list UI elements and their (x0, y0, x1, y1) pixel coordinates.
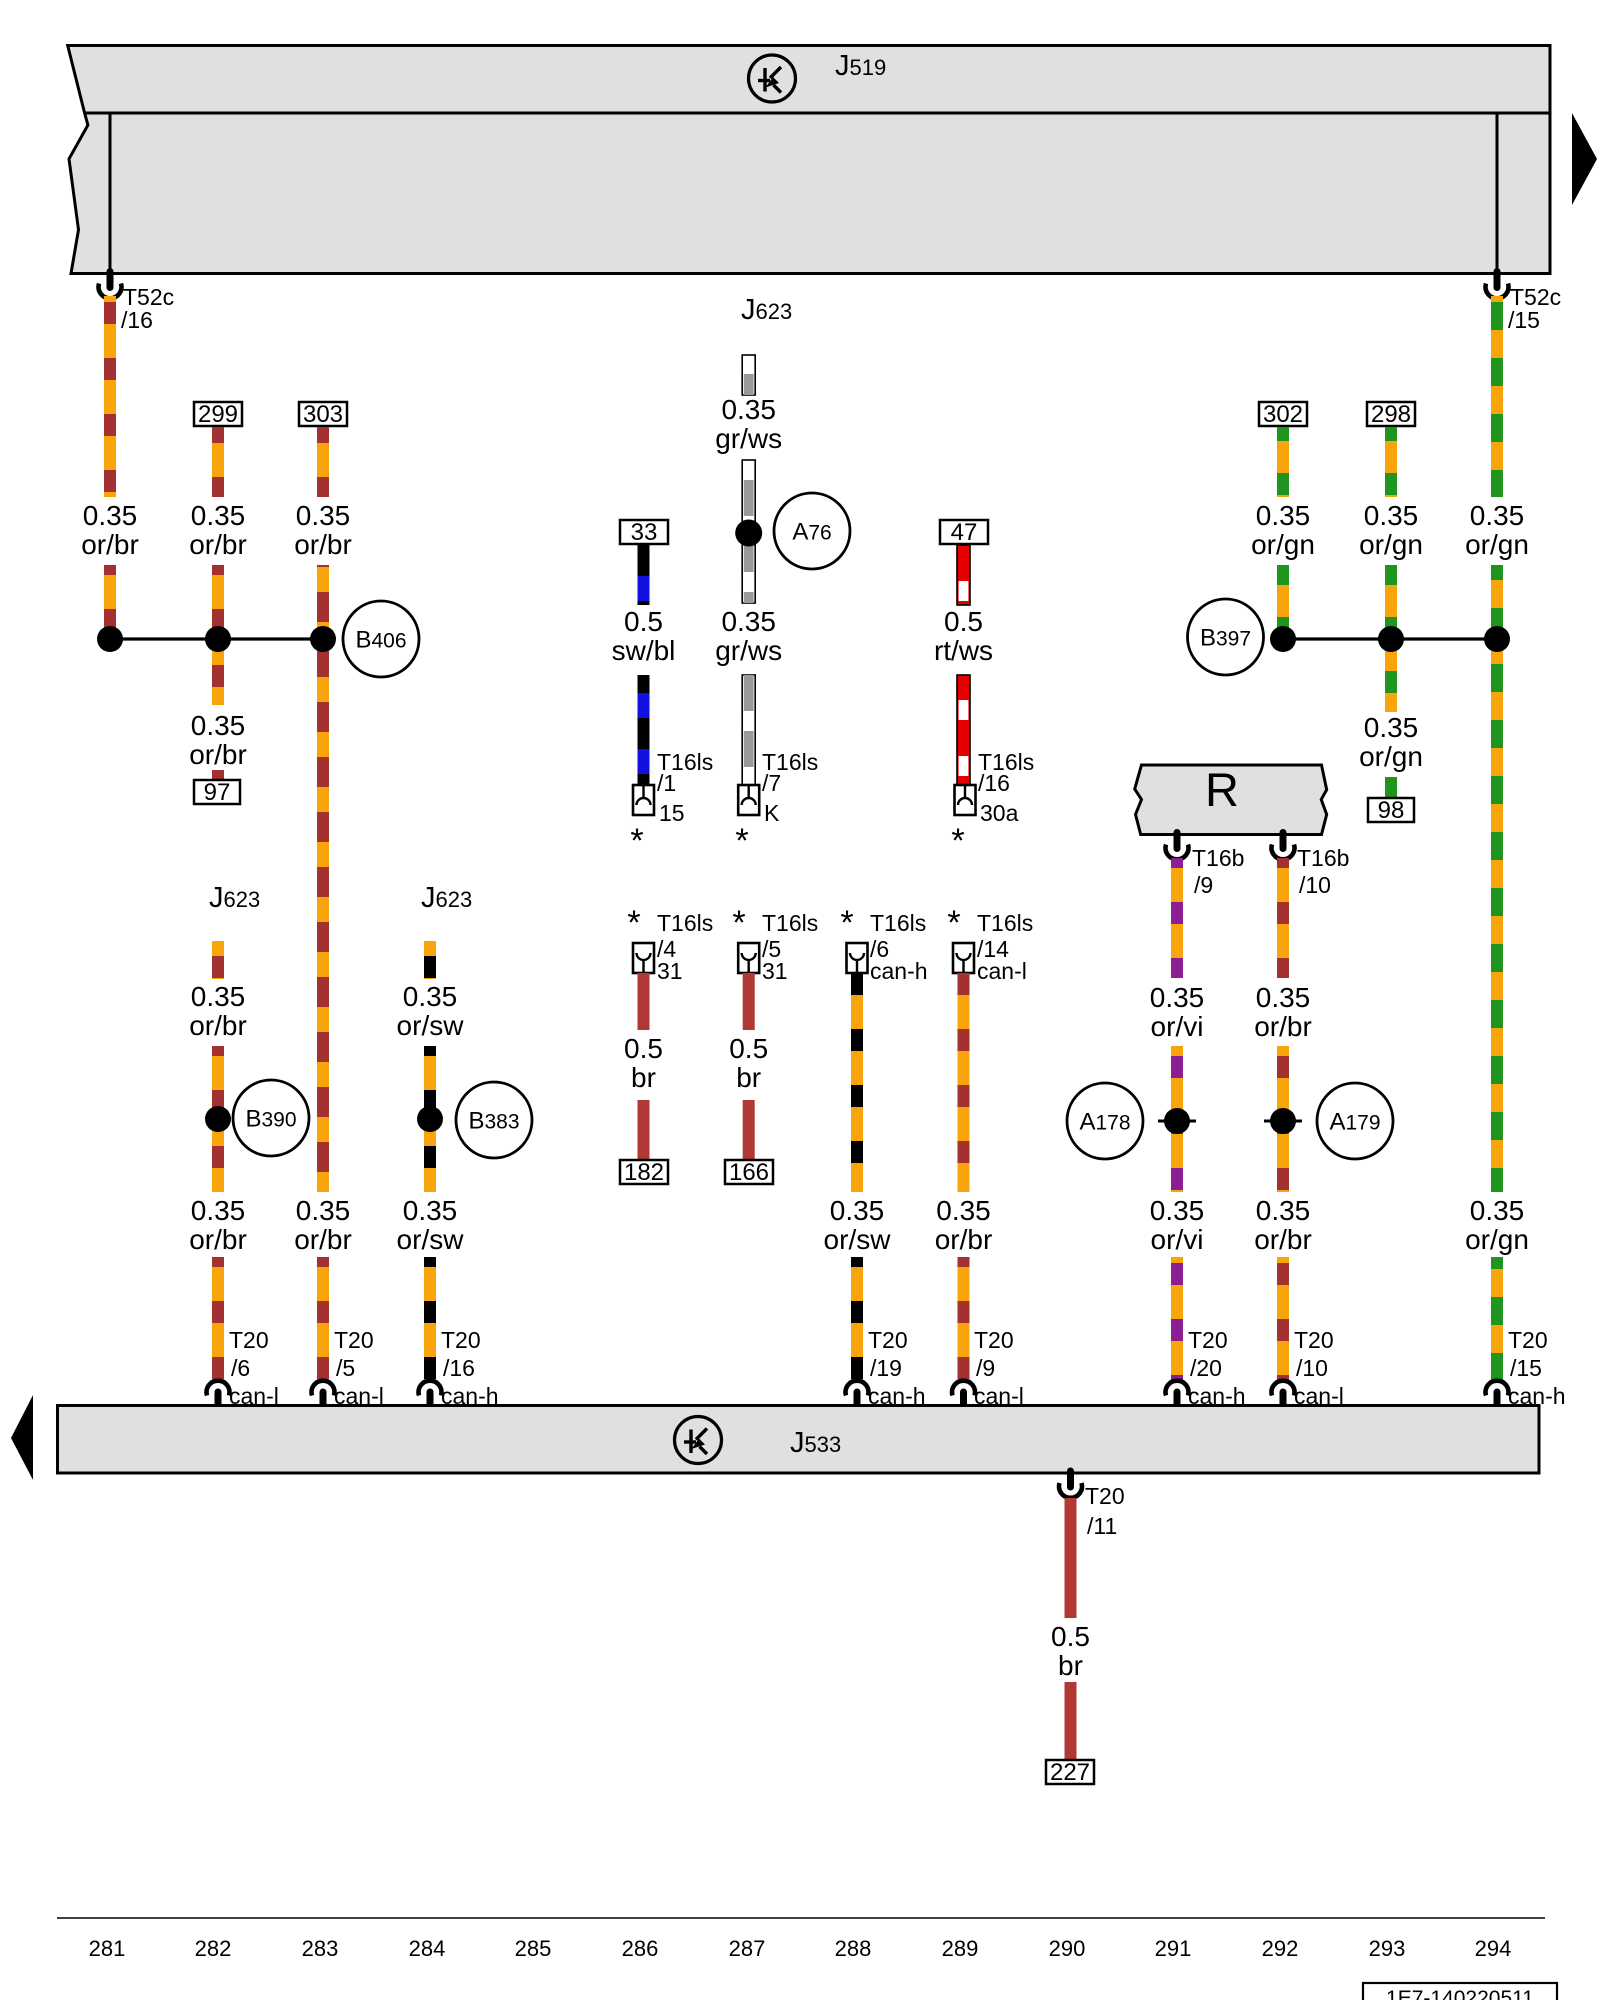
svg-text:286: 286 (622, 1936, 659, 1961)
svg-text:284: 284 (409, 1936, 446, 1961)
svg-text:/16: /16 (443, 1355, 475, 1381)
wire 0.35 or/sw t284 mid (424, 1046, 436, 1192)
svg-text:can-l: can-l (229, 1383, 279, 1409)
label 15 (659, 800, 685, 826)
wire 0.35 or/br track 281 lower (104, 565, 116, 640)
svg-text:T16ls: T16ls (870, 910, 926, 936)
wire 0.35 or/sw t284 to J533 (424, 1257, 436, 1381)
connector T16ls/6 (847, 943, 868, 973)
wire 0.5 sw/bl lower (638, 675, 650, 785)
svg-text:can-h: can-h (1188, 1383, 1246, 1409)
svg-text:0.35: 0.35 (1470, 1195, 1525, 1226)
label T20 t283 (334, 1327, 374, 1353)
svg-text:T20: T20 (1294, 1327, 1334, 1353)
wire 0.35 or/br below T16b/10 (1277, 858, 1289, 978)
asterisk above T16ls/14 (947, 904, 960, 942)
svg-text:A179: A179 (1329, 1109, 1380, 1136)
label T16ls /16 (978, 749, 1034, 775)
wire 0.35 or/br t292 to J533 (1277, 1257, 1289, 1381)
svg-text:291: 291 (1155, 1936, 1192, 1961)
svg-text:*: * (735, 822, 748, 860)
svg-text:166: 166 (729, 1159, 769, 1186)
splice junction A179 dot (1264, 1108, 1302, 1134)
wire 0.35 or/br below box 303 (317, 427, 329, 497)
label /16 t284 (443, 1355, 475, 1381)
svg-text:can-l: can-l (974, 1383, 1024, 1409)
terminal box 299 (194, 401, 242, 428)
connector T20/11 at J533 bottom (1059, 1471, 1082, 1498)
label 0.5 rt/ws (934, 606, 993, 666)
svg-text:can-h: can-h (868, 1383, 926, 1409)
wire 0.35 or/gn track 294 upper (1491, 296, 1503, 497)
wire 0.35 or/sw t288 to J533 (851, 1257, 863, 1381)
svg-text:B390: B390 (245, 1106, 296, 1133)
svg-text:K: K (764, 800, 780, 826)
svg-text:/1: /1 (657, 770, 676, 796)
connector T16ls/5 (738, 943, 759, 973)
label can-h t288b (868, 1383, 926, 1409)
label 0.35 or/br track 282 mid (189, 710, 247, 770)
wire 0.35 gr/ws mid (742, 460, 755, 603)
svg-text:T16b: T16b (1297, 845, 1349, 871)
splice A179 (1317, 1083, 1393, 1159)
label T16ls /4 (657, 910, 713, 936)
track number 284 (409, 1936, 446, 1961)
connector T20/20 at J533 (1166, 1381, 1189, 1406)
label 0.35 or/gn t292 (1251, 500, 1315, 560)
svg-text:285: 285 (515, 1936, 552, 1961)
label J623 track 282 (209, 882, 260, 914)
track number 288 (835, 1936, 872, 1961)
wire 0.35 or/sw t288 (851, 973, 863, 1192)
label 0.5 sw/bl (612, 606, 676, 666)
junction dot track 282 (205, 626, 231, 652)
svg-text:15: 15 (659, 800, 685, 826)
label can-l t282 (229, 1383, 279, 1409)
svg-text:98: 98 (1378, 797, 1405, 824)
wire 0.5 br above box 182 (638, 1100, 650, 1160)
label T16ls /6 (870, 910, 926, 936)
connector T16ls/16 (955, 785, 976, 815)
connector T20/15 at J533 (1486, 1381, 1509, 1406)
svg-text:0.35: 0.35 (83, 500, 138, 531)
drawing number plate 1E7-140220511 (1363, 1983, 1557, 2000)
wire 0.35 or/br track 282 mid (212, 565, 224, 705)
wire 0.35 or/br t289 (958, 973, 970, 1192)
terminal box 182 (620, 1159, 668, 1186)
svg-text:0.35: 0.35 (1256, 500, 1311, 531)
label T16ls /7 (762, 749, 818, 775)
svg-text:303: 303 (303, 401, 343, 428)
label J519 (835, 50, 886, 82)
terminal box 47 (940, 519, 988, 546)
splice junction B390 dot (205, 1106, 231, 1132)
terminal box 98 (1368, 797, 1414, 824)
junction dot track 294 (1484, 626, 1510, 652)
svg-text:0.5: 0.5 (624, 606, 663, 637)
splice B390 (233, 1080, 309, 1156)
track number 291 (1155, 1936, 1192, 1961)
svg-text:294: 294 (1475, 1936, 1512, 1961)
svg-text:gr/ws: gr/ws (715, 635, 782, 666)
label /4 (657, 936, 676, 962)
wire 0.35 or/gn stub above box 98 (1385, 777, 1397, 798)
svg-text:0.35: 0.35 (403, 1195, 458, 1226)
svg-text:0.35: 0.35 (1470, 500, 1525, 531)
svg-text:0.35: 0.35 (721, 606, 776, 637)
asterisk below T16ls/16 (951, 822, 964, 860)
terminal box 97 (194, 779, 240, 806)
track number 286 (622, 1936, 659, 1961)
label J533 (790, 1427, 841, 1459)
continuation arrow right of J519 (1572, 113, 1597, 205)
svg-text:B406: B406 (355, 627, 406, 654)
wire 0.35 or/vi to J533 (1171, 1257, 1183, 1381)
svg-text:0.35: 0.35 (296, 500, 351, 531)
svg-text:J623: J623 (209, 882, 260, 914)
svg-text:or/br: or/br (189, 739, 247, 770)
svg-text:or/gn: or/gn (1251, 529, 1315, 560)
label can-h t291 (1188, 1383, 1246, 1409)
svg-text:or/br: or/br (294, 529, 352, 560)
asterisk below T16ls/1 (630, 822, 643, 860)
label T20 t294 (1508, 1327, 1548, 1353)
svg-text:281: 281 (89, 1936, 126, 1961)
label 0.35 or/vi lower (1150, 1195, 1205, 1255)
label 0.35 or/br track 282 upper (189, 500, 247, 560)
track number 290 (1049, 1936, 1086, 1961)
svg-text:97: 97 (204, 779, 231, 806)
label /10 (1299, 872, 1331, 898)
terminal box 302 (1259, 401, 1307, 428)
svg-text:*: * (732, 904, 745, 942)
svg-text:/7: /7 (762, 770, 781, 796)
svg-text:or/sw: or/sw (397, 1010, 465, 1041)
label /1 (657, 770, 676, 796)
label J623 track 284 (421, 882, 472, 914)
connector T16ls/1 (633, 785, 654, 815)
data bus gateway J533 box (58, 1406, 1540, 1474)
label 31 t287 (762, 958, 788, 984)
svg-text:or/gn: or/gn (1465, 529, 1529, 560)
connector T16ls/7 (738, 785, 759, 815)
svg-text:0.35: 0.35 (721, 394, 776, 425)
wire 0.35 or/vi mid (1171, 1046, 1183, 1192)
svg-text:/6: /6 (231, 1355, 250, 1381)
label T16ls /1 (657, 749, 713, 775)
svg-text:0.5: 0.5 (944, 606, 983, 637)
svg-text:T20: T20 (1085, 1483, 1125, 1509)
wire 0.35 or/br track 283 long (317, 565, 329, 1192)
label 0.35 or/gn t294 upper (1465, 500, 1529, 560)
wire 0.35 or/gn below box 302 (1277, 427, 1289, 497)
label 0.35 gr/ws upper (715, 394, 782, 454)
svg-text:0.35: 0.35 (1364, 712, 1419, 743)
wire pin lead inside J519 track 294 (1496, 115, 1499, 272)
svg-text:or/br: or/br (935, 1224, 993, 1255)
svg-text:T20: T20 (441, 1327, 481, 1353)
junction dot track 283 (310, 626, 336, 652)
svg-text:0.5: 0.5 (729, 1033, 768, 1064)
label 0.35 or/sw t284 upper (397, 981, 465, 1041)
svg-text:or/gn: or/gn (1359, 529, 1423, 560)
label 0.35 or/vi upper (1150, 982, 1205, 1042)
track number 292 (1262, 1936, 1299, 1961)
svg-text:J519: J519 (835, 50, 886, 82)
svg-text:B397: B397 (1200, 625, 1251, 652)
svg-text:/9: /9 (1194, 872, 1213, 898)
label T20 t291 (1188, 1327, 1228, 1353)
svg-text:or/br: or/br (189, 1224, 247, 1255)
svg-text:0.35: 0.35 (403, 981, 458, 1012)
terminal box 33 (620, 519, 668, 546)
svg-text:0.35: 0.35 (1150, 982, 1205, 1013)
label 30a (980, 800, 1019, 826)
asterisk above T16ls/5 (732, 904, 745, 942)
continuation arrow left of J533 (11, 1395, 33, 1480)
svg-text:can-h: can-h (870, 958, 928, 984)
connector T20/9 at J533 (952, 1381, 975, 1406)
terminal box 166 (725, 1159, 773, 1186)
splice junction A76 dot (735, 520, 762, 547)
wire 0.35 or/gn t292 to B397 (1277, 565, 1289, 639)
wire 0.35 gr/ws upper (742, 355, 755, 395)
track number 282 (195, 1936, 232, 1961)
wire 0.35 or/br t289 to J533 (958, 1257, 970, 1381)
track number 293 (1369, 1936, 1406, 1961)
svg-text:0.35: 0.35 (191, 981, 246, 1012)
label 0.35 or/br t282 lower (189, 1195, 247, 1255)
svg-text:T20: T20 (868, 1327, 908, 1353)
svg-text:J623: J623 (421, 882, 472, 914)
label T16b (left) (1192, 845, 1244, 871)
svg-text:T16ls: T16ls (762, 910, 818, 936)
svg-text:0.5: 0.5 (624, 1033, 663, 1064)
bus symbol in J519 (749, 55, 796, 102)
label /19 (870, 1355, 902, 1381)
label can-h t288 (870, 958, 928, 984)
wire pin lead inside J519 track 281 (109, 115, 112, 272)
splice B406 (343, 601, 419, 677)
svg-text:0.35: 0.35 (191, 500, 246, 531)
svg-text:gr/ws: gr/ws (715, 423, 782, 454)
wire 0.35 or/vi below T16b/9 (1171, 858, 1183, 978)
svg-text:T20: T20 (229, 1327, 269, 1353)
wire 0.35 or/gn t293 mid (1385, 565, 1397, 712)
svg-text:/10: /10 (1299, 872, 1331, 898)
svg-text:0.35: 0.35 (296, 1195, 351, 1226)
wire 0.5 br below T16ls/5 (743, 973, 755, 1030)
label 0.35 or/gn t293 upper (1359, 500, 1423, 560)
svg-text:31: 31 (657, 958, 683, 984)
svg-text:47: 47 (951, 519, 978, 546)
svg-text:or/vi: or/vi (1151, 1011, 1204, 1042)
svg-text:or/br: or/br (294, 1224, 352, 1255)
wire 0.35 or/br track 281 upper (104, 296, 116, 497)
label can-l t292 (1294, 1383, 1344, 1409)
label 0.35 or/sw t284 lower (397, 1195, 465, 1255)
label T20 t284 (441, 1327, 481, 1353)
asterisk above T16ls/4 (627, 904, 640, 942)
svg-text:290: 290 (1049, 1936, 1086, 1961)
control module J519 box (68, 46, 1550, 274)
svg-text:can-l: can-l (334, 1383, 384, 1409)
svg-text:0.35: 0.35 (191, 710, 246, 741)
svg-text:31: 31 (762, 958, 788, 984)
svg-text:30a: 30a (980, 800, 1019, 826)
component R box (1135, 763, 1327, 835)
connector T20/6 at J533 (207, 1381, 230, 1406)
track number baseline rule (57, 1917, 1545, 1919)
svg-text:/16: /16 (121, 307, 153, 333)
wire 0.5 rt/ws lower (957, 675, 970, 785)
track number 289 (942, 1936, 979, 1961)
terminal box 298 (1367, 401, 1415, 428)
label /16 (121, 307, 153, 333)
svg-text:T20: T20 (334, 1327, 374, 1353)
svg-text:T16ls: T16ls (657, 910, 713, 936)
label can-h t294 (1508, 1383, 1566, 1409)
wire 0.35 or/br t283 to J533 (317, 1257, 329, 1381)
svg-text:or/br: or/br (1254, 1011, 1312, 1042)
track number 287 (729, 1936, 766, 1961)
svg-text:B383: B383 (468, 1108, 519, 1135)
label can-l t283 (334, 1383, 384, 1409)
svg-text:sw/bl: sw/bl (612, 635, 676, 666)
connector T16b/9 at R (1166, 833, 1189, 860)
label /6 (870, 936, 889, 962)
label 0.35 gr/ws lower (715, 606, 782, 666)
label 0.35 or/br track 283 upper (294, 500, 352, 560)
wire 0.5 rt/ws below box 47 (957, 545, 970, 605)
wire 0.5 br below T16ls/4 (638, 973, 650, 1030)
svg-text:*: * (947, 904, 960, 942)
svg-text:*: * (627, 904, 640, 942)
label /5 (336, 1355, 355, 1381)
label T52c (left) (123, 284, 174, 310)
svg-text:can-l: can-l (1294, 1383, 1344, 1409)
bus symbol in J533 (675, 1417, 722, 1464)
label 0.5 br t286 (624, 1033, 663, 1093)
svg-text:or/br: or/br (1254, 1224, 1312, 1255)
svg-text:T20: T20 (1188, 1327, 1228, 1353)
connector T20/10 at J533 (1272, 1381, 1295, 1406)
splice junction A178 dot (1158, 1108, 1196, 1134)
connector T16b/10 at R (1272, 833, 1295, 860)
splice B406 bus bar (110, 637, 323, 640)
label T16b (right) (1297, 845, 1349, 871)
junction dot track 293 (1378, 626, 1404, 652)
wire 0.35 gr/ws to T16ls/7 (742, 675, 755, 785)
track number 294 (1475, 1936, 1512, 1961)
label 0.35 or/gn t293 lower (1359, 712, 1423, 772)
svg-text:T20: T20 (1508, 1327, 1548, 1353)
svg-text:br: br (1058, 1650, 1083, 1681)
wire 0.35 or/br J623 branch upper t282 (212, 941, 224, 979)
label 0.35 or/sw t288 (824, 1195, 892, 1255)
splice B397 (1188, 599, 1264, 675)
svg-text:298: 298 (1371, 401, 1411, 428)
label T20 t290 (1085, 1483, 1125, 1509)
svg-text:R: R (1205, 763, 1239, 816)
splice B383 (456, 1082, 532, 1158)
label T16ls /14 (977, 910, 1033, 936)
wire 0.5 br below J533 (1065, 1498, 1077, 1618)
svg-text:rt/ws: rt/ws (934, 635, 993, 666)
svg-text:can-h: can-h (441, 1383, 499, 1409)
label 0.35 or/br t283 lower (294, 1195, 352, 1255)
label /10 t292 (1296, 1355, 1328, 1381)
label /15 t294 (1510, 1355, 1542, 1381)
svg-text:or/br: or/br (81, 529, 139, 560)
svg-text:or/br: or/br (189, 529, 247, 560)
svg-text:287: 287 (729, 1936, 766, 1961)
svg-text:283: 283 (302, 1936, 339, 1961)
label /15 (1508, 307, 1540, 333)
svg-text:A178: A178 (1079, 1109, 1130, 1136)
label can-h t284 (441, 1383, 499, 1409)
svg-text:/19: /19 (870, 1355, 902, 1381)
svg-text:T16b: T16b (1192, 845, 1244, 871)
label T20 t289 (974, 1327, 1014, 1353)
svg-text:/5: /5 (336, 1355, 355, 1381)
svg-text:can-h: can-h (1508, 1383, 1566, 1409)
wire 0.35 or/br stub above box 97 (212, 770, 224, 780)
svg-text:0.35: 0.35 (1150, 1195, 1205, 1226)
svg-text:/15: /15 (1508, 307, 1540, 333)
svg-text:br: br (736, 1062, 761, 1093)
svg-text:/16: /16 (978, 770, 1010, 796)
track number 283 (302, 1936, 339, 1961)
svg-text:/20: /20 (1190, 1355, 1222, 1381)
svg-text:or/gn: or/gn (1465, 1224, 1529, 1255)
svg-text:T20: T20 (974, 1327, 1014, 1353)
svg-text:*: * (630, 822, 643, 860)
label T52c (right) (1510, 284, 1561, 310)
label /14 (977, 936, 1009, 962)
label /9 (1194, 872, 1213, 898)
svg-text:J623: J623 (741, 294, 792, 326)
junction dot track 281 (97, 626, 123, 652)
splice A76 (774, 493, 850, 569)
svg-text:or/vi: or/vi (1151, 1224, 1204, 1255)
svg-text:227: 227 (1050, 1759, 1090, 1786)
connector T20/5 at J533 (311, 1381, 334, 1406)
label T20 t282 (229, 1327, 269, 1353)
svg-text:or/gn: or/gn (1359, 741, 1423, 772)
svg-text:can-l: can-l (977, 958, 1027, 984)
svg-text:302: 302 (1263, 401, 1303, 428)
svg-text:293: 293 (1369, 1936, 1406, 1961)
connector T52c/16 at J519 (98, 272, 121, 299)
label T16ls /5 (762, 910, 818, 936)
label 0.35 or/br t282 J623 (189, 981, 247, 1041)
splice B397 bus bar (1283, 637, 1497, 640)
label 0.35 or/br t292 lower (1254, 1195, 1312, 1255)
label 0.35 or/br t289 (935, 1195, 993, 1255)
svg-text:/9: /9 (976, 1355, 995, 1381)
track number 285 (515, 1936, 552, 1961)
svg-text:/10: /10 (1296, 1355, 1328, 1381)
label 0.5 br t287 (729, 1033, 768, 1093)
wire 0.35 or/gn t294 to J533 (1491, 1257, 1503, 1381)
connector T20/19 at J533 (846, 1381, 869, 1406)
svg-text:/11: /11 (1087, 1513, 1117, 1539)
label 0.35 or/br track 281 (81, 500, 139, 560)
label can-l t289 (977, 958, 1027, 984)
label 0.5 br t290 (1051, 1621, 1090, 1681)
wire 0.35 or/br t282 to J533 (212, 1257, 224, 1381)
